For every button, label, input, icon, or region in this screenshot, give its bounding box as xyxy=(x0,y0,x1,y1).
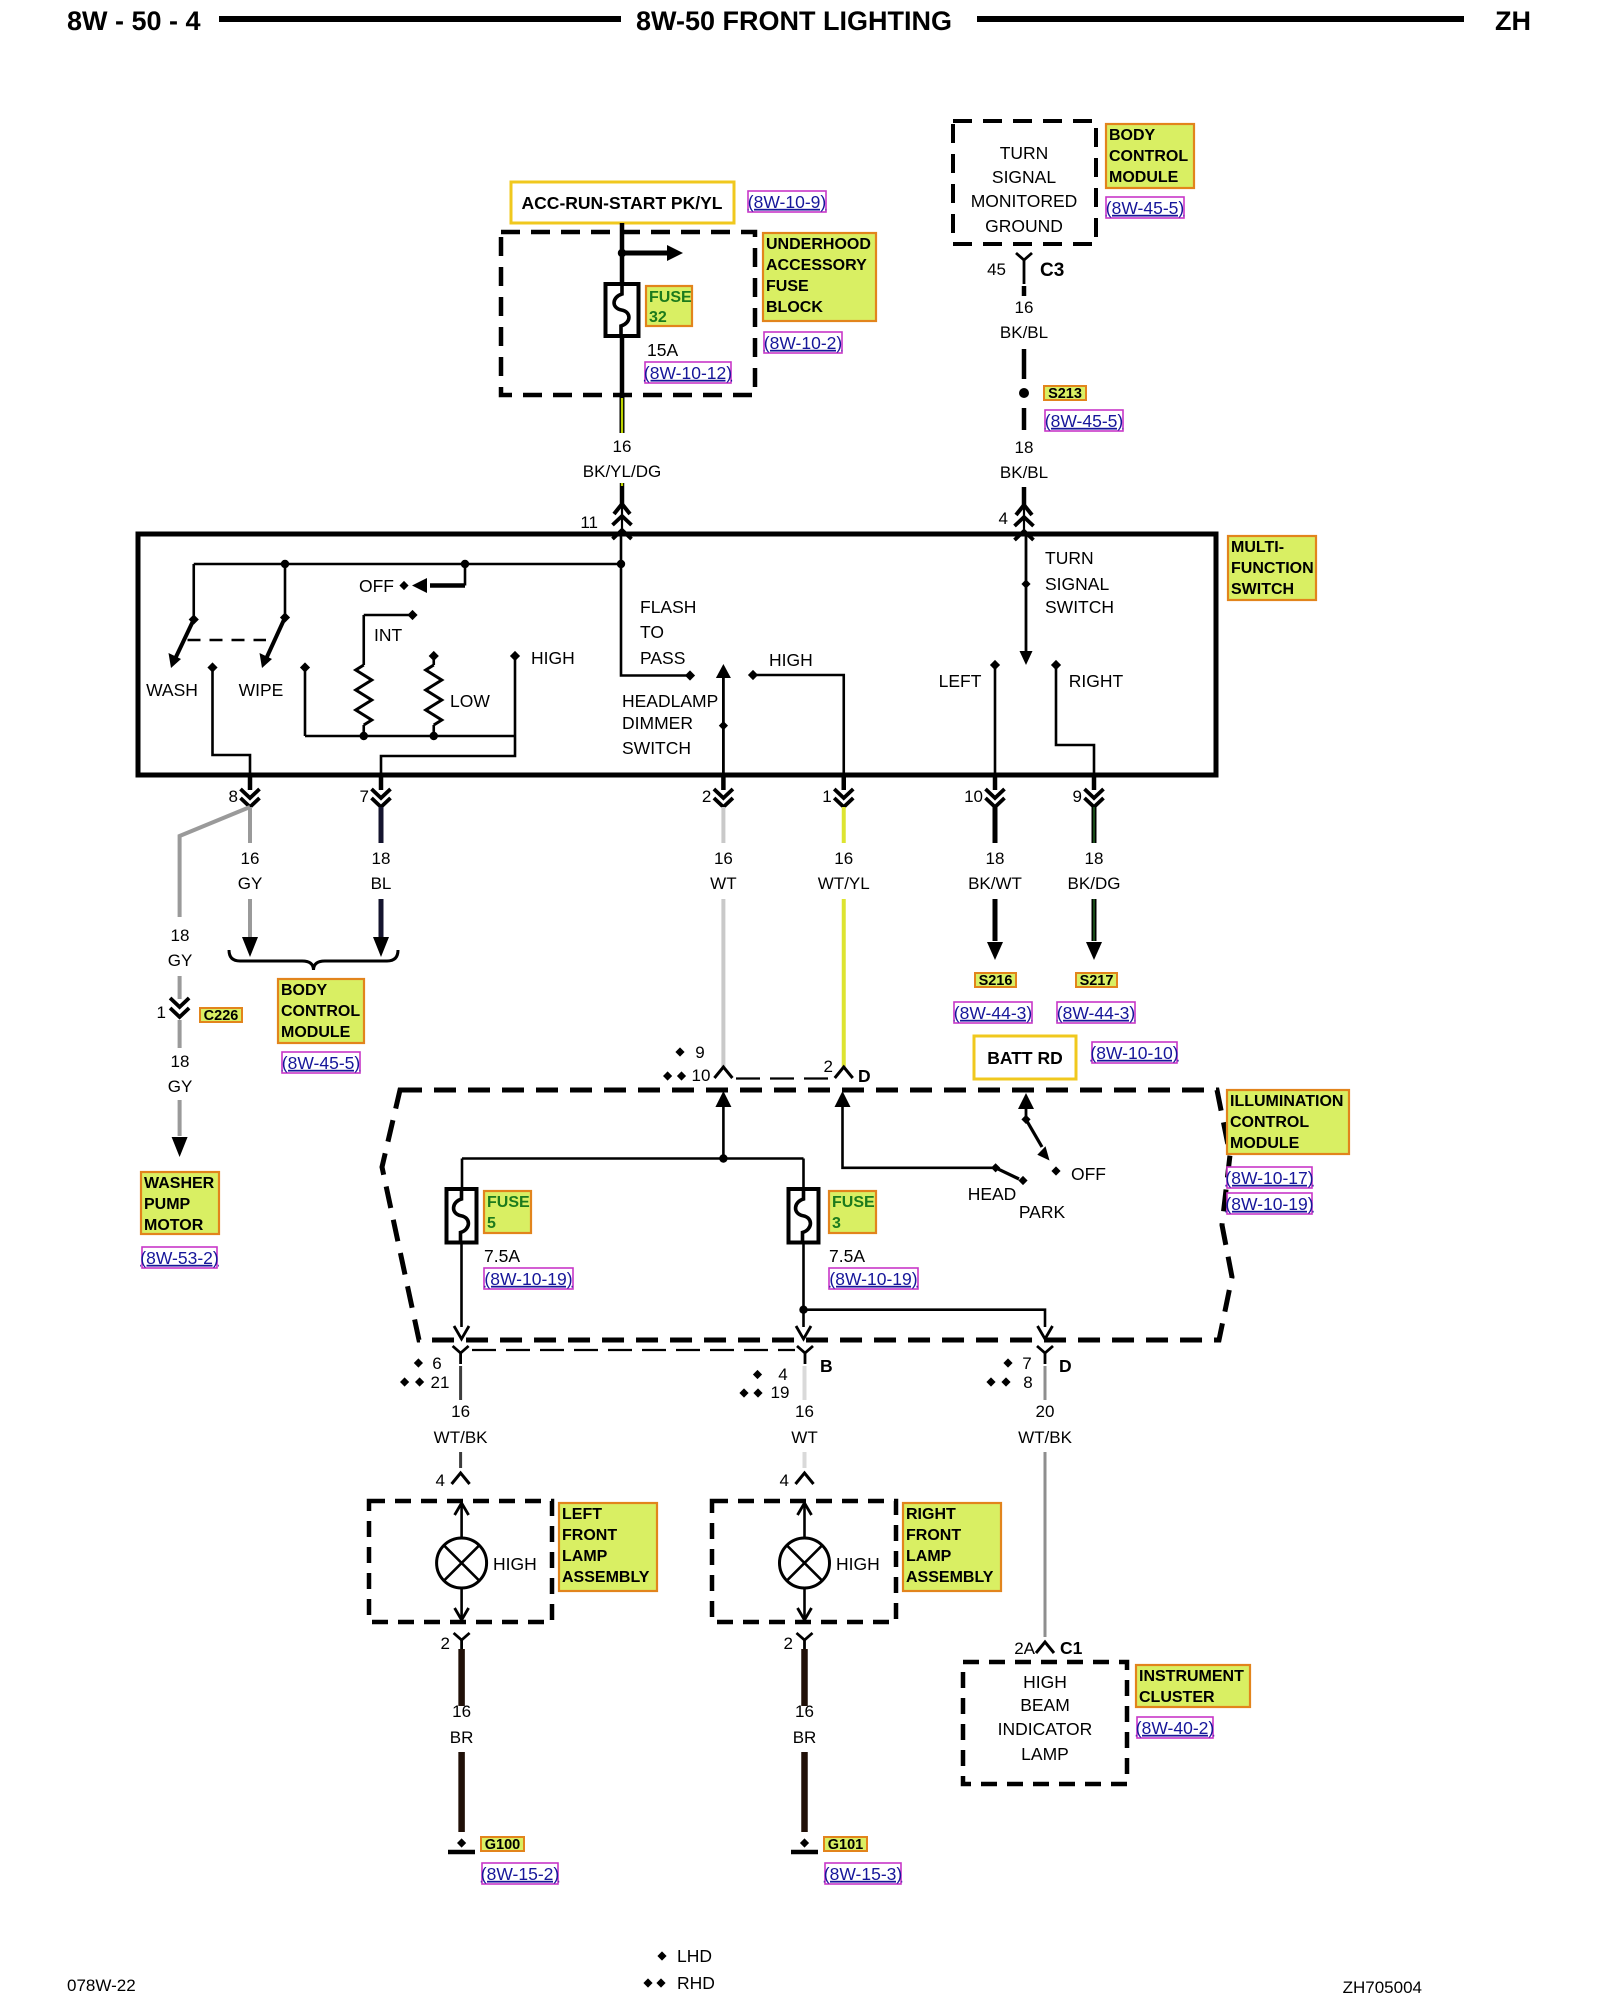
svg-text:OFF: OFF xyxy=(359,576,394,596)
svg-text:45: 45 xyxy=(987,260,1006,279)
svg-text:(8W-53-2): (8W-53-2) xyxy=(140,1248,218,1268)
svg-text:18: 18 xyxy=(372,849,391,868)
svg-text:21: 21 xyxy=(431,1373,450,1392)
link 8W-10-2 xyxy=(764,332,842,353)
svg-text:WT: WT xyxy=(710,874,736,893)
headlamp switch feed xyxy=(1018,1093,1034,1109)
left lamp feed arrow xyxy=(455,1503,469,1515)
svg-text:C226: C226 xyxy=(204,1008,239,1024)
arrow indicator out xyxy=(1038,1326,1053,1339)
svg-text:(8W-44-3): (8W-44-3) xyxy=(1057,1003,1135,1023)
wire segment xyxy=(459,1452,462,1468)
wire 18 BK/WT xyxy=(993,807,998,843)
label UNDERHOOD ACCESSORY FUSE BLOCK xyxy=(763,233,876,321)
node BATT RD box xyxy=(974,1036,1076,1079)
svg-text:LAMP: LAMP xyxy=(1021,1744,1069,1764)
svg-text:ACCESSORY: ACCESSORY xyxy=(766,257,867,274)
svg-text:4: 4 xyxy=(436,1471,445,1490)
svg-text:C3: C3 xyxy=(1040,260,1064,281)
wire 16 GY xyxy=(248,807,252,843)
link 8W-15-2 xyxy=(482,1863,558,1884)
svg-text:18: 18 xyxy=(1015,438,1034,457)
arrow fuse3 out xyxy=(796,1326,811,1339)
wire segment xyxy=(248,899,252,937)
link 8W-10-19 (icm) xyxy=(1227,1193,1312,1214)
svg-text:(8W-10-17): (8W-10-17) xyxy=(1225,1168,1313,1188)
svg-text:FLASH: FLASH xyxy=(640,597,696,617)
junction xyxy=(461,560,469,568)
svg-text:UNDERHOOD: UNDERHOOD xyxy=(766,236,871,253)
label LEFT FRONT LAMP ASSEMBLY xyxy=(559,1503,657,1591)
dimmer high wire xyxy=(753,675,844,775)
wire segment xyxy=(178,1020,182,1048)
svg-text:7: 7 xyxy=(360,787,369,806)
wire segment xyxy=(1022,408,1027,430)
wire top bus xyxy=(194,563,621,566)
svg-text:2: 2 xyxy=(824,1057,833,1076)
ground G100 xyxy=(457,1838,466,1847)
wiper bus exit wire xyxy=(381,736,515,775)
label FUSE 32 xyxy=(646,286,692,326)
svg-text:WASH: WASH xyxy=(146,680,198,700)
wipe switch wire xyxy=(284,564,287,618)
svg-text:S213: S213 xyxy=(1048,386,1082,402)
wipe output contact xyxy=(207,662,217,672)
icm feed arrow (wt/yl) xyxy=(835,1091,851,1107)
svg-text:RIGHT: RIGHT xyxy=(906,1506,956,1523)
svg-text:MONITORED: MONITORED xyxy=(971,191,1078,211)
legend RHD xyxy=(643,1978,652,1987)
svg-text:HIGH: HIGH xyxy=(531,648,575,668)
wire 16 BK/YL/DG below fuse block xyxy=(620,336,625,395)
svg-text:18: 18 xyxy=(171,926,190,945)
right lamp ground lead xyxy=(803,1588,806,1620)
high contact stub xyxy=(510,651,520,661)
fuse F5 xyxy=(447,1189,477,1243)
connector lamp 4 (left) xyxy=(452,1473,470,1484)
svg-text:BK/WT: BK/WT xyxy=(968,874,1022,893)
svg-text:11: 11 xyxy=(580,513,598,532)
header rule right xyxy=(977,16,1464,22)
wire feed into fuse block xyxy=(620,223,625,284)
flash-to-pass contact xyxy=(685,670,695,680)
lamp symbol (left high beam) xyxy=(437,1538,487,1588)
svg-text:ZH705004: ZH705004 xyxy=(1343,1978,1422,1997)
arrow fuse5 out xyxy=(454,1326,469,1339)
svg-text:CONTROL: CONTROL xyxy=(1109,148,1188,165)
svg-text:INDICATOR: INDICATOR xyxy=(998,1719,1093,1739)
wire 18 BL xyxy=(379,807,384,843)
svg-text:16: 16 xyxy=(613,437,632,456)
ground G101 xyxy=(800,1838,809,1847)
fuse 3 feed xyxy=(802,1159,805,1190)
wire 16 BK/BL xyxy=(1022,286,1027,296)
multi-function switch box xyxy=(138,534,1216,775)
link 8W-10-9 xyxy=(748,191,826,212)
svg-text:32: 32 xyxy=(649,309,667,326)
arrow (16 GY) to BCM xyxy=(242,937,258,957)
fuse 3 output wire xyxy=(802,1243,805,1328)
svg-text:10: 10 xyxy=(964,787,983,806)
turn signal blade xyxy=(1025,534,1028,652)
head contact blade xyxy=(996,1168,1019,1179)
svg-text:RIGHT: RIGHT xyxy=(1069,671,1124,691)
svg-text:D: D xyxy=(1059,1356,1072,1376)
connector 2 D fork xyxy=(835,1067,853,1078)
svg-text:WT/BK: WT/BK xyxy=(1018,1428,1072,1447)
svg-text:ASSEMBLY: ASSEMBLY xyxy=(906,1569,994,1586)
svg-text:LEFT: LEFT xyxy=(939,671,982,691)
brace to body control module xyxy=(229,950,398,970)
svg-text:ACC-RUN-START PK/YL: ACC-RUN-START PK/YL xyxy=(522,193,723,213)
svg-text:4: 4 xyxy=(780,1471,789,1490)
svg-text:INSTRUMENT: INSTRUMENT xyxy=(1139,1668,1244,1685)
wire 16 WT/BK (left) xyxy=(459,1366,462,1400)
wire 16 BR (right) xyxy=(801,1649,808,1706)
resistor LOW xyxy=(432,659,435,665)
label S216 xyxy=(975,973,1016,987)
svg-text:FUSE: FUSE xyxy=(832,1194,875,1211)
svg-text:20: 20 xyxy=(1036,1402,1055,1421)
wire segment xyxy=(379,899,384,937)
svg-text:BODY: BODY xyxy=(281,982,328,999)
svg-text:ILLUMINATION: ILLUMINATION xyxy=(1230,1093,1343,1110)
junction xyxy=(618,249,626,257)
svg-text:FRONT: FRONT xyxy=(906,1527,961,1544)
svg-text:LOW: LOW xyxy=(450,691,490,711)
svg-text:(8W-10-10): (8W-10-10) xyxy=(1090,1043,1178,1063)
svg-text:(8W-10-19): (8W-10-19) xyxy=(1225,1194,1313,1214)
svg-text:7.5A: 7.5A xyxy=(484,1246,520,1266)
svg-text:FUNCTION: FUNCTION xyxy=(1231,560,1314,577)
off contact xyxy=(399,581,408,590)
dimmer blade xyxy=(722,677,725,775)
wire segment xyxy=(458,1752,465,1832)
wire 16 WT/YL xyxy=(842,807,846,843)
svg-text:BK/DG: BK/DG xyxy=(1068,874,1121,893)
connector pin 1 xyxy=(842,775,847,790)
link 8W-45-5 (top) xyxy=(1106,197,1184,218)
svg-text:CONTROL: CONTROL xyxy=(1230,1114,1309,1131)
wire 16 BR (left) xyxy=(458,1649,465,1706)
svg-text:LHD: LHD xyxy=(677,1946,712,1966)
dashed coupling xyxy=(188,639,267,641)
svg-text:5: 5 xyxy=(487,1215,496,1232)
label G101 xyxy=(824,1837,867,1851)
svg-text:TURN: TURN xyxy=(1000,143,1049,163)
connector lamp 2 (left) xyxy=(454,1633,470,1640)
connector pin 2 xyxy=(721,775,726,790)
connector D fork (bottom) xyxy=(1037,1346,1053,1353)
svg-text:SIGNAL: SIGNAL xyxy=(1045,574,1109,594)
wire 18 GY diagonal xyxy=(180,807,250,917)
junction xyxy=(360,732,368,740)
svg-text:16: 16 xyxy=(714,849,733,868)
svg-text:WASHER: WASHER xyxy=(144,1175,215,1192)
link 8W-10-10 xyxy=(1092,1042,1177,1063)
svg-text:B: B xyxy=(820,1356,833,1376)
label S213 xyxy=(1044,386,1086,400)
svg-text:(8W-45-5): (8W-45-5) xyxy=(1106,198,1184,218)
svg-text:LAMP: LAMP xyxy=(906,1548,952,1565)
svg-text:WT/BK: WT/BK xyxy=(434,1428,488,1447)
splice S213 xyxy=(1019,388,1029,398)
link 8W-15-3 xyxy=(825,1863,901,1884)
right lamp feed arrow xyxy=(798,1503,812,1515)
connector dashed tie (top) xyxy=(736,1077,831,1079)
label ILLUMINATION CONTROL MODULE xyxy=(1227,1090,1349,1154)
right contact xyxy=(1051,660,1061,670)
connector pin 8 xyxy=(248,775,253,790)
connector 9/10 fork xyxy=(714,1067,732,1078)
head park pivot xyxy=(991,1163,1000,1172)
svg-text:FUSE: FUSE xyxy=(649,289,692,306)
svg-text:MOTOR: MOTOR xyxy=(144,1217,204,1234)
resistor INT xyxy=(362,615,365,665)
node ACC-RUN-START PK/YL box xyxy=(511,182,734,223)
high beam indicator lamp box xyxy=(963,1662,1127,1784)
variant pin 19 xyxy=(739,1388,748,1397)
link 8W-40-2 xyxy=(1137,1717,1213,1738)
connector pin 9 xyxy=(1092,775,1097,790)
wire 18 BK/DG xyxy=(1092,807,1097,843)
link 8W-53-2 xyxy=(142,1247,217,1268)
illumination control module outline xyxy=(382,1090,1232,1340)
int contact xyxy=(407,610,417,620)
svg-text:ASSEMBLY: ASSEMBLY xyxy=(562,1569,650,1586)
junction xyxy=(617,560,625,568)
svg-text:BATT RD: BATT RD xyxy=(987,1048,1063,1068)
wire segment xyxy=(178,1100,182,1136)
wash switch wire xyxy=(192,564,195,620)
underhood accessory fuse block box xyxy=(501,232,755,395)
svg-text:CLUSTER: CLUSTER xyxy=(1139,1689,1215,1706)
svg-text:8: 8 xyxy=(229,787,238,806)
svg-text:16: 16 xyxy=(1015,298,1034,317)
wire segment xyxy=(1022,349,1027,379)
svg-text:CONTROL: CONTROL xyxy=(281,1003,360,1020)
svg-text:G100: G100 xyxy=(485,1837,520,1853)
variant pin 7 xyxy=(1003,1358,1012,1367)
left front lamp box xyxy=(369,1501,552,1622)
svg-text:2A: 2A xyxy=(1014,1639,1035,1658)
svg-text:8W-50 FRONT LIGHTING: 8W-50 FRONT LIGHTING xyxy=(636,6,952,36)
wire 16 WT xyxy=(721,807,725,843)
svg-text:BK/BL: BK/BL xyxy=(1000,323,1048,342)
svg-text:16: 16 xyxy=(241,849,260,868)
svg-text:FUSE: FUSE xyxy=(487,1194,530,1211)
svg-text:16: 16 xyxy=(795,1402,814,1421)
svg-text:RHD: RHD xyxy=(677,1973,715,1993)
arrow to washer pump xyxy=(172,1137,188,1157)
svg-text:G101: G101 xyxy=(828,1837,863,1853)
svg-text:(8W-44-3): (8W-44-3) xyxy=(954,1003,1032,1023)
wire segment xyxy=(721,899,725,1067)
label G100 xyxy=(481,1837,524,1851)
wash switch blade xyxy=(175,620,194,660)
svg-text:INT: INT xyxy=(374,625,403,645)
fuse bus xyxy=(462,1157,804,1160)
left contact xyxy=(990,660,1000,670)
icm feed arrow (left) xyxy=(715,1091,731,1107)
wire segment xyxy=(178,976,182,999)
svg-text:078W-22: 078W-22 xyxy=(67,1976,136,1995)
arrow (18 BL) to BCM xyxy=(373,937,389,957)
svg-text:HIGH: HIGH xyxy=(493,1554,537,1574)
svg-text:2: 2 xyxy=(702,787,711,806)
svg-text:PASS: PASS xyxy=(640,648,685,668)
svg-text:TO: TO xyxy=(640,622,664,642)
svg-text:OFF: OFF xyxy=(1071,1164,1106,1184)
junction xyxy=(281,560,289,568)
label FUSE 3 xyxy=(829,1191,876,1233)
svg-text:18: 18 xyxy=(171,1052,190,1071)
svg-text:(8W-45-5): (8W-45-5) xyxy=(282,1053,360,1073)
wire 16 WT (right) xyxy=(803,1366,807,1400)
svg-text:MODULE: MODULE xyxy=(281,1024,351,1041)
link 8W-10-17 xyxy=(1227,1167,1312,1188)
turn signal monitored ground box xyxy=(953,121,1096,244)
connector pin 4 xyxy=(1022,487,1027,505)
connector C3 xyxy=(1016,253,1032,260)
connector dashed tie (bottom) xyxy=(472,1349,795,1351)
variant pin 4 xyxy=(753,1370,762,1379)
svg-text:ZH: ZH xyxy=(1495,6,1531,36)
link 8W-10-19 (F3) xyxy=(829,1268,918,1289)
svg-text:16: 16 xyxy=(451,1402,470,1421)
svg-text:SWITCH: SWITCH xyxy=(1231,581,1294,598)
svg-text:PARK: PARK xyxy=(1019,1202,1066,1222)
svg-text:16: 16 xyxy=(834,849,853,868)
junction xyxy=(799,1306,807,1314)
fuse 5 output wire xyxy=(460,1243,463,1328)
label S217 xyxy=(1076,973,1117,987)
svg-text:(8W-10-2): (8W-10-2) xyxy=(764,333,842,353)
label WASHER PUMP MOTOR xyxy=(141,1172,219,1234)
svg-text:BEAM: BEAM xyxy=(1020,1695,1070,1715)
dimmer high contact xyxy=(748,670,758,680)
left contact wire xyxy=(994,668,997,775)
variant pin 8 xyxy=(986,1377,995,1386)
wipe switch contact xyxy=(280,612,290,622)
label BODY CONTROL MODULE (bottom) xyxy=(278,979,364,1043)
legend LHD xyxy=(657,1951,666,1960)
headlamp switch pivot xyxy=(1021,1115,1030,1124)
label INSTRUMENT CLUSTER xyxy=(1136,1665,1250,1707)
connector C226 xyxy=(170,998,189,1007)
svg-text:GY: GY xyxy=(168,1077,193,1096)
connector pin 10 xyxy=(993,775,998,790)
svg-text:4: 4 xyxy=(778,1365,787,1384)
wire segment xyxy=(1044,1452,1047,1637)
variant pin 9 (LHD) xyxy=(675,1047,684,1056)
link 8W-45-5 (bottom) xyxy=(282,1052,360,1073)
svg-text:BR: BR xyxy=(450,1728,474,1747)
link 8W-45-5 (S213) xyxy=(1045,410,1123,431)
lamp symbol (right high beam) xyxy=(780,1538,830,1588)
svg-text:2: 2 xyxy=(784,1634,793,1653)
wire segment xyxy=(1092,899,1097,941)
off arrowhead xyxy=(412,578,427,593)
label FUSE 5 xyxy=(484,1191,531,1233)
svg-text:16: 16 xyxy=(795,1702,814,1721)
svg-text:BK/YL/DG: BK/YL/DG xyxy=(583,462,661,481)
connector B fork xyxy=(797,1346,813,1353)
wire segment xyxy=(842,899,846,1067)
svg-text:1: 1 xyxy=(822,787,831,806)
wire segment xyxy=(993,899,998,941)
svg-text:16: 16 xyxy=(452,1702,471,1721)
svg-text:WT: WT xyxy=(791,1428,817,1447)
svg-text:FRONT: FRONT xyxy=(562,1527,617,1544)
svg-text:15A: 15A xyxy=(647,340,678,360)
right front lamp box xyxy=(712,1501,896,1622)
wire 20 WT/BK xyxy=(1044,1366,1047,1400)
connector pin 7 xyxy=(379,775,384,790)
junction xyxy=(719,1154,727,1162)
svg-text:(8W-10-9): (8W-10-9) xyxy=(748,192,826,212)
wiper common stub xyxy=(300,662,310,672)
svg-text:7: 7 xyxy=(1022,1354,1031,1373)
connector 6 fork xyxy=(453,1346,469,1353)
headlamp switch blade xyxy=(1026,1119,1042,1147)
connector C1 xyxy=(1036,1642,1054,1653)
svg-text:SWITCH: SWITCH xyxy=(622,738,691,758)
connector lamp 4 (right) xyxy=(796,1473,814,1484)
low contact xyxy=(429,651,439,661)
arrow to S216 xyxy=(987,942,1003,960)
svg-text:6: 6 xyxy=(432,1354,441,1373)
off contact (icm) xyxy=(1051,1166,1060,1175)
svg-text:BR: BR xyxy=(793,1728,817,1747)
svg-text:GY: GY xyxy=(238,874,263,893)
header rule left xyxy=(219,16,621,22)
svg-text:8W - 50 - 4: 8W - 50 - 4 xyxy=(67,6,201,36)
svg-text:HEAD: HEAD xyxy=(968,1184,1017,1204)
right contact wire xyxy=(1056,668,1094,775)
svg-text:SWITCH: SWITCH xyxy=(1045,597,1114,617)
variant pin 10 (RHD) xyxy=(663,1071,672,1080)
wipe switch blade xyxy=(266,618,285,660)
svg-text:TURN: TURN xyxy=(1045,548,1094,568)
branch to indicator xyxy=(804,1310,1046,1327)
left lamp ground lead xyxy=(460,1588,463,1620)
svg-text:8: 8 xyxy=(1023,1373,1032,1392)
svg-text:(8W-10-12): (8W-10-12) xyxy=(644,363,732,383)
label MULTI-FUNCTION SWITCH xyxy=(1228,536,1316,600)
svg-text:HEADLAMP: HEADLAMP xyxy=(622,691,718,711)
int contact wire xyxy=(364,614,413,617)
svg-text:(8W-10-19): (8W-10-19) xyxy=(829,1269,917,1289)
label RIGHT FRONT LAMP ASSEMBLY xyxy=(903,1503,1001,1591)
svg-text:C1: C1 xyxy=(1060,1638,1083,1658)
connector lamp 2 (right) xyxy=(797,1633,813,1640)
svg-text:BL: BL xyxy=(371,874,392,893)
svg-text:MODULE: MODULE xyxy=(1109,169,1179,186)
link 8W-10-12 xyxy=(645,362,731,383)
svg-text:HIGH: HIGH xyxy=(836,1554,880,1574)
svg-text:FUSE: FUSE xyxy=(766,278,809,295)
off branch wire xyxy=(464,564,467,586)
link 8W-10-19 (F5) xyxy=(484,1268,573,1289)
svg-text:1: 1 xyxy=(157,1003,166,1022)
svg-text:MODULE: MODULE xyxy=(1230,1135,1300,1152)
svg-text:18: 18 xyxy=(1085,849,1104,868)
wash switch contact xyxy=(189,614,199,624)
svg-text:BK/BL: BK/BL xyxy=(1000,463,1048,482)
fuse F3 xyxy=(789,1189,819,1243)
connector pin 11 xyxy=(620,483,625,504)
